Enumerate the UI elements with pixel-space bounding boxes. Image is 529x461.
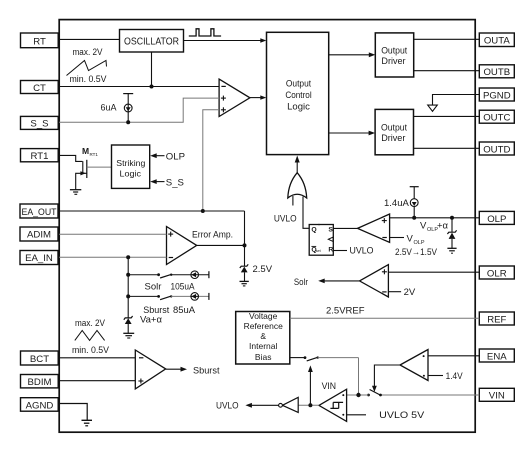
wire OLP comparator output to latch S input	[333, 227, 357, 229]
svg-text:RT: RT	[33, 36, 46, 47]
wire schmitt output to buffer	[298, 404, 319, 406]
ground under zener	[447, 248, 456, 253]
wire OLP comparator - input / V_OLP label	[390, 234, 425, 247]
svg-text:Va+α: Va+α	[140, 315, 162, 326]
output control logic block	[267, 32, 329, 154]
svg-text:V: V	[420, 221, 427, 232]
pin BCT	[21, 351, 59, 365]
svg-text:min. 0.5V: min. 0.5V	[70, 74, 108, 85]
wire driver to OUTD	[414, 147, 480, 149]
pin OUTC	[479, 110, 514, 123]
pin BDIM	[21, 375, 59, 389]
wire switch to schmitt trigger input	[347, 394, 369, 396]
switch Sburst with 85uA source	[128, 293, 209, 316]
switch Solr with 105uA source	[128, 271, 209, 293]
pin RT1	[21, 149, 59, 163]
svg-text:OUTC: OUTC	[483, 113, 510, 124]
svg-text:Output: Output	[381, 123, 407, 134]
wire ENA comparator - input 1.4V	[428, 371, 463, 382]
node junction 1.4uA / OLP line	[412, 216, 416, 220]
wire ENA pin to comparator	[428, 355, 479, 357]
svg-text:OLP: OLP	[166, 152, 185, 163]
svg-text:RT1: RT1	[31, 151, 49, 162]
burst comparator U10	[135, 350, 165, 389]
svg-text:85uA: 85uA	[173, 305, 196, 316]
svg-text:2.5V: 2.5V	[253, 264, 273, 275]
svg-text:ENA: ENA	[487, 351, 507, 362]
svg-text:max. 2V: max. 2V	[73, 47, 104, 58]
svg-text:Reference: Reference	[244, 321, 283, 331]
wire control logic to bottom driver (arrow)	[329, 131, 375, 136]
clock pulse waveform glyph	[189, 29, 221, 36]
label V_OLP+a	[420, 221, 449, 234]
wire oscillator output to control logic	[184, 40, 264, 42]
svg-text:S_S: S_S	[30, 119, 48, 130]
OR gate U2	[288, 173, 307, 198]
wire AGND to ground	[59, 404, 87, 421]
svg-text:Bias: Bias	[255, 352, 272, 362]
svg-text:EA_OUT: EA_OUT	[22, 207, 57, 218]
pin CT	[21, 81, 59, 94]
pin ADIM	[20, 227, 58, 241]
svg-text:min. 0.5V: min. 0.5V	[72, 345, 110, 356]
current source 1.4uA	[384, 187, 419, 218]
pin VIN	[479, 388, 514, 401]
wire schmitt - input UVLO 5V	[347, 410, 425, 421]
svg-text:PGND: PGND	[483, 90, 511, 101]
oscillator block U-OSC	[120, 30, 184, 53]
svg-text:1.4V: 1.4V	[446, 371, 464, 382]
pin ENA	[479, 349, 514, 362]
wire 2.5VREF to REF pin	[290, 317, 480, 319]
wire VIN pin to switch	[381, 394, 480, 396]
svg-text:2.5V→1.5V: 2.5V→1.5V	[395, 247, 438, 258]
PWM comparator U1	[219, 79, 250, 116]
svg-text:Logic: Logic	[120, 168, 142, 178]
svg-text:Q: Q	[311, 227, 316, 234]
inverter buffer U9	[279, 397, 299, 412]
svg-text:Error Amp.: Error Amp.	[192, 229, 233, 240]
diode Va+a	[124, 315, 163, 334]
voltage reference block	[236, 311, 290, 364]
pin OUTD	[479, 142, 514, 155]
schmitt trigger UVLO 5V comparator U8	[319, 389, 347, 421]
svg-text:Driver: Driver	[381, 133, 405, 144]
svg-text:Driver: Driver	[381, 56, 405, 67]
wire OLR comparator - input 2V	[388, 287, 415, 298]
node junction bias branch / VIN line	[356, 393, 360, 397]
svg-text:1.4uA: 1.4uA	[384, 198, 409, 209]
svg-text:2.5VREF: 2.5VREF	[326, 306, 365, 317]
wire bias switch down to VIN line	[358, 358, 360, 395]
wire BDIM to burst comparator	[59, 380, 135, 382]
CT sawtooth waveform	[67, 61, 107, 76]
node junction Sburst switch row	[126, 294, 130, 298]
pin OUTB	[479, 65, 514, 78]
svg-text:+α: +α	[437, 221, 449, 232]
svg-text:CT: CT	[33, 83, 46, 94]
main IC boundary box	[59, 20, 475, 433]
wire latch R input UVLO	[333, 250, 347, 252]
svg-text:Solr: Solr	[294, 277, 308, 288]
svg-text:OUTB: OUTB	[483, 67, 510, 78]
wire driver to OUTC	[414, 115, 480, 117]
node junction EA_OUT / feedback	[201, 209, 205, 213]
svg-text:R: R	[328, 246, 333, 253]
output driver block (top)	[375, 33, 413, 77]
svg-text:REF: REF	[487, 314, 506, 325]
OLP comparator U4	[358, 214, 390, 242]
SR latch U3	[309, 223, 333, 255]
wire RT1 to mosfet gate	[59, 155, 82, 161]
svg-text:max. 2V: max. 2V	[75, 318, 106, 329]
wire OLP input arrow into striking logic	[150, 152, 185, 163]
svg-text:UVLO: UVLO	[274, 214, 297, 225]
ground under Va diode	[123, 333, 134, 338]
svg-text:OLP: OLP	[487, 214, 506, 225]
svg-text:OLR: OLR	[487, 268, 507, 279]
svg-text:Output: Output	[286, 79, 312, 90]
wire S_S to PWM comparator + input	[59, 98, 219, 122]
wire driver to OUTA	[414, 38, 480, 40]
wire PWM comparator output to control logic	[250, 97, 264, 99]
wire driver to OUTB	[414, 70, 480, 72]
svg-text:Sburst: Sburst	[193, 365, 220, 376]
wire mosfet drain to striking logic	[87, 166, 112, 168]
wire RT to oscillator	[59, 38, 120, 40]
svg-text:OUTA: OUTA	[484, 36, 511, 47]
svg-text:*: *	[318, 223, 320, 229]
wire oscillator bottom stub to CT line	[151, 52, 153, 87]
svg-text:RT1: RT1	[90, 152, 99, 157]
pin EA_IN	[20, 251, 58, 265]
svg-text:ADIM: ADIM	[27, 230, 51, 241]
striking logic block	[112, 145, 150, 188]
switch VIN enable	[367, 390, 382, 397]
wire UVLO output arrow	[216, 401, 279, 412]
svg-text:Solr: Solr	[145, 282, 162, 293]
svg-text:BDIM: BDIM	[28, 377, 52, 388]
svg-text:&: &	[260, 331, 266, 341]
svg-text:Internal: Internal	[249, 341, 277, 351]
transistor M_RT1	[76, 146, 99, 190]
wire UVLO stub into OR gate left input	[292, 196, 294, 206]
pin OLP	[479, 211, 514, 224]
svg-text:OLP: OLP	[414, 240, 425, 246]
svg-text:UVLO: UVLO	[350, 246, 374, 257]
ENA comparator U7	[400, 350, 428, 381]
node junction schmitt output / switch control	[308, 403, 312, 407]
wire burst comparator output Sburst arrow	[166, 365, 220, 376]
ground under 2.5V zener	[240, 281, 249, 286]
wire OR gate output arrow into control logic	[295, 156, 300, 173]
node junction CT/oscillator	[150, 85, 154, 89]
zener diode 2.5V clamp	[240, 264, 273, 281]
svg-text:Striking: Striking	[116, 158, 145, 168]
wire EA_OUT node vertical to 2.5V zener	[244, 211, 246, 266]
pin PGND	[479, 88, 514, 101]
pin OLR	[479, 266, 514, 279]
svg-text:UVLO 5V: UVLO 5V	[379, 410, 425, 421]
svg-text:VIN: VIN	[489, 391, 505, 402]
output driver block (bottom)	[375, 109, 413, 154]
wire BCT to burst comparator	[59, 357, 135, 359]
wire EA_OUT feedback to PWM comparator bottom + input	[203, 110, 219, 211]
svg-text:OUTD: OUTD	[483, 144, 510, 155]
wire control logic to top driver (arrow)	[329, 52, 376, 57]
pin RT	[21, 33, 59, 48]
pin REF	[479, 312, 514, 325]
svg-text:S_S: S_S	[166, 177, 184, 188]
svg-text:105uA: 105uA	[171, 282, 196, 293]
svg-text:S: S	[328, 226, 333, 233]
BCT triangle waveform	[75, 331, 105, 341]
svg-text:AGND: AGND	[26, 400, 54, 411]
OLR comparator U6	[360, 265, 389, 297]
node junction EA_IN / switch branch	[126, 255, 130, 259]
svg-text:Voltage: Voltage	[249, 311, 278, 321]
node junction Solr switch row	[126, 273, 130, 277]
ground under M_RT1	[70, 190, 81, 195]
node junction error amp output	[243, 243, 247, 247]
svg-text:2V: 2V	[404, 287, 416, 298]
wire S_S input arrow into striking logic	[150, 177, 184, 188]
svg-text:EA_IN: EA_IN	[25, 253, 53, 264]
error amplifier U5	[167, 227, 234, 265]
wire OLP pin to comparator + input	[390, 217, 480, 219]
svg-text:BCT: BCT	[30, 354, 49, 365]
pin EA_OUT	[20, 204, 58, 218]
svg-text:VIN: VIN	[322, 381, 337, 392]
pin S_S	[21, 116, 59, 129]
node junction zener / OLP line	[450, 216, 454, 220]
wire OR gate right input from latch	[303, 197, 309, 229]
wire OLR pin to comparator + input	[388, 271, 479, 273]
wire EA_IN branch down to diode	[127, 257, 129, 318]
wire OLR comparator output Solr arrow	[294, 277, 360, 288]
switch bias enable	[290, 356, 359, 361]
wire EA_OUT line	[59, 210, 245, 212]
svg-text:OSCILLATOR: OSCILLATOR	[124, 36, 179, 47]
svg-text:UVLO: UVLO	[216, 401, 239, 412]
wire EA_IN to error amp - input	[59, 256, 167, 258]
wire ENA comparator output arrow to VIN switch	[372, 365, 400, 392]
pin OUTA	[479, 33, 514, 47]
current source 6uA	[100, 94, 133, 123]
pin AGND	[21, 398, 59, 412]
svg-text:6uA: 6uA	[100, 102, 116, 112]
node junction 6uA / S_S	[126, 120, 130, 124]
wire UVLO control arrow up to bias switch	[308, 365, 313, 405]
svg-text:M: M	[82, 146, 89, 156]
wire ADIM to error amp + input	[59, 233, 167, 235]
svg-text:Control: Control	[285, 90, 311, 101]
wire PGND to ground arrow	[428, 95, 480, 112]
svg-text:Output: Output	[381, 46, 407, 57]
svg-text:V: V	[407, 234, 414, 245]
ground AGND	[82, 420, 93, 426]
wire error amp output to EA_OUT node	[197, 244, 245, 246]
wire CT to PWM comparator	[59, 86, 219, 88]
svg-text:Logic: Logic	[287, 102, 310, 113]
zener diode V_OLP	[447, 218, 456, 248]
